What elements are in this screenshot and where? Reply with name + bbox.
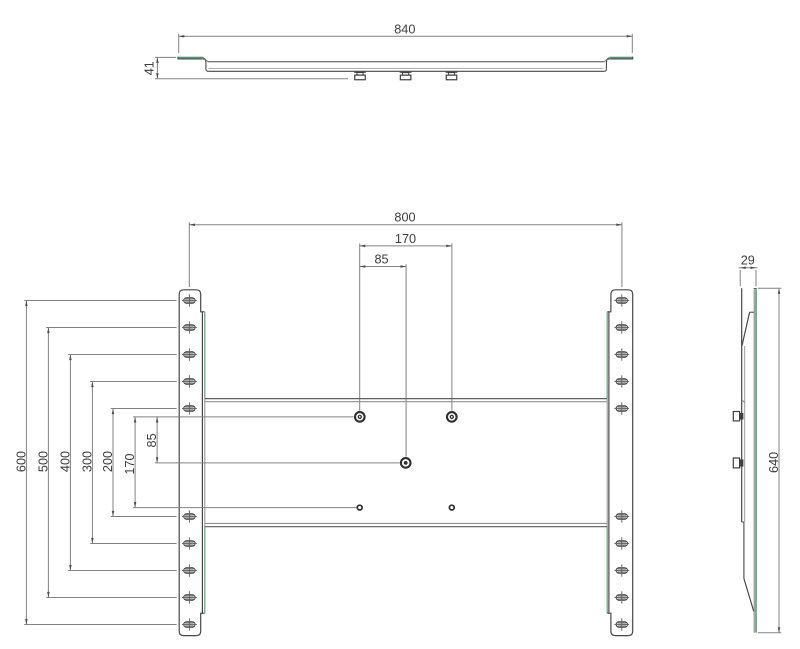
right bracket slot hole 1 (614, 294, 629, 306)
right bracket slot hole 10 (614, 618, 629, 630)
side view: small mid step (742, 400, 745, 403)
right bracket slot hole 5 (614, 402, 629, 414)
left bracket slot hole 10 (182, 618, 197, 630)
top view: mounting stud 2 (400, 72, 412, 80)
top view: right flange (610, 57, 633, 60)
left bracket outline (179, 290, 202, 636)
top view: left bend (202, 58, 208, 72)
svg-text:840: 840 (394, 23, 415, 37)
dimension 840 (top view width) (179, 23, 633, 53)
plate hole upper-left (355, 412, 365, 422)
right bracket slot hole 8 (614, 564, 629, 576)
plate hole lower-right (449, 505, 454, 510)
left bracket slot hole 6 (182, 510, 197, 522)
svg-text:400: 400 (59, 451, 73, 472)
right bracket slot hole 9 (614, 591, 629, 603)
svg-text:800: 800 (394, 211, 415, 225)
side view: lower step edge (742, 522, 744, 579)
side view: bracket left edge (741, 288, 743, 522)
left bracket slot hole 1 (182, 294, 197, 306)
side view: bottom slant (744, 579, 754, 612)
svg-text:600: 600 (15, 451, 29, 472)
right bracket slot hole 4 (614, 375, 629, 387)
top view: mounting stud 1 (354, 72, 366, 80)
plate hole centre (401, 458, 411, 468)
top view: body top edge (208, 61, 605, 63)
svg-text:85: 85 (145, 433, 159, 447)
dimension 500 (left stack) (37, 328, 177, 598)
right bracket slot hole 3 (614, 348, 629, 360)
left bracket slot hole 3 (182, 348, 197, 360)
dimension 600 (left stack) (15, 301, 177, 625)
svg-text:200: 200 (101, 451, 115, 472)
svg-text:41: 41 (142, 61, 156, 75)
dimension 41 (top view height) (142, 57, 348, 78)
side view: top step of tilted profile (742, 312, 754, 346)
side view: clip 1 (733, 412, 743, 421)
left bracket slot hole 5 (182, 402, 197, 414)
left bracket slot hole 7 (182, 537, 197, 549)
dimension 640 (side view height) (758, 288, 782, 633)
top view: right bend (604, 58, 610, 72)
dimension 170 (left stack, plate holes) (123, 417, 356, 508)
svg-text:170: 170 (123, 453, 137, 474)
side view: clip 2 (733, 458, 743, 468)
svg-text:500: 500 (37, 451, 51, 472)
top view: body inner line (209, 67, 604, 69)
side view: wall plate rear/front surface (754, 289, 757, 633)
svg-text:85: 85 (374, 252, 388, 266)
plate bottom edges (205, 523, 607, 526)
dimension 300 (left stack) (81, 382, 177, 544)
left bracket flange edge (202, 312, 204, 613)
dimension 200 (left stack) (101, 409, 176, 517)
left bracket slot hole 2 (182, 321, 197, 333)
dimension 170 (front view, upper VESA holes) (360, 232, 452, 411)
top view: mounting stud 3 (446, 72, 458, 80)
top view: wall plate profile, left flange (178, 57, 203, 60)
right bracket slot hole 7 (614, 537, 629, 549)
right bracket slot hole 6 (614, 510, 629, 522)
svg-text:300: 300 (81, 451, 95, 472)
dimension 85 (front view, centre hole offset) (360, 252, 406, 456)
top view: body bottom edge (208, 70, 604, 72)
right bracket outline (609, 290, 633, 636)
right bracket flange edge (607, 312, 609, 613)
dimension 85 (left stack, centre hole) (145, 417, 399, 463)
left bracket slot hole 4 (182, 375, 197, 387)
plate hole upper-right (447, 412, 457, 422)
plate top edges (205, 399, 607, 402)
plate hole lower-left (357, 505, 362, 510)
side view: bracket inner edge (744, 346, 746, 522)
svg-text:29: 29 (741, 254, 755, 268)
svg-text:170: 170 (395, 232, 416, 246)
dimension 800 (front view, bracket hole columns) (189, 211, 622, 287)
svg-text:640: 640 (767, 452, 781, 473)
left bracket slot hole 9 (182, 591, 197, 603)
dimension 400 (left stack) (59, 355, 177, 571)
left bracket slot hole 8 (182, 564, 197, 576)
right bracket slot hole 2 (614, 321, 629, 333)
dimension 29 (side view depth) (739, 254, 758, 287)
